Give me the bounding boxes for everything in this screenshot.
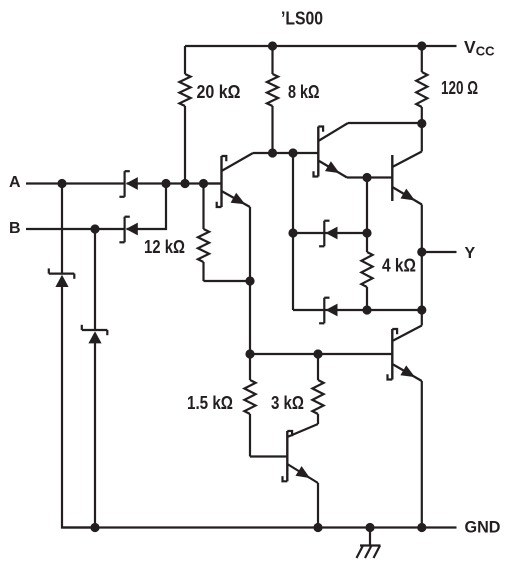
svg-text:A: A bbox=[9, 174, 21, 191]
transistor Q1 schottky input bbox=[208, 153, 254, 207]
wire Y stub bbox=[422, 251, 457, 253]
wire clamp B vertical bbox=[94, 229, 96, 330]
ground rail bbox=[62, 526, 457, 528]
node R7 top bbox=[313, 349, 322, 358]
resistor R2 8 k&#937; bbox=[267, 46, 278, 153]
transistor Q2 schottky phase splitter bbox=[314, 123, 349, 178]
node ground at clamp B bbox=[90, 523, 99, 532]
wire D1 to base node bbox=[127, 182, 222, 184]
node lower row at R5 bbox=[362, 305, 371, 314]
diode D2 input B schottky bbox=[119, 217, 137, 243]
wire R6 to Q6 base bbox=[250, 455, 287, 457]
svg-text:B: B bbox=[9, 220, 21, 237]
svg-text:8 kΩ: 8 kΩ bbox=[288, 82, 320, 102]
diode D6 schottky bbox=[319, 298, 337, 324]
svg-text:’LS00: ’LS00 bbox=[281, 8, 323, 29]
svg-text:1.5 kΩ: 1.5 kΩ bbox=[187, 393, 233, 413]
node VCC junction at R2 bbox=[268, 41, 277, 50]
svg-text:3 kΩ: 3 kΩ bbox=[271, 393, 304, 413]
resistor R4 12 k&#937; bbox=[198, 184, 209, 282]
node A clamp junction bbox=[57, 179, 66, 188]
transistor Q5 schottky output pulldown bbox=[388, 310, 422, 528]
wire Q2 emitter vertical to upper row bbox=[366, 178, 368, 234]
node R4 junction bbox=[199, 179, 208, 188]
resistor R1 20 k&#937; bbox=[179, 46, 190, 184]
wire upper diode row bbox=[293, 232, 367, 234]
transistor Q3 darlington output bbox=[392, 124, 422, 253]
ground symbol bbox=[357, 528, 381, 559]
node R6 top bbox=[245, 349, 254, 358]
diode D3 clamp A schottky bbox=[49, 268, 75, 287]
resistor R7 3 k&#937; bbox=[312, 354, 323, 424]
svg-text:4 kΩ: 4 kΩ bbox=[382, 256, 416, 276]
diode D5 schottky bbox=[319, 221, 337, 247]
wire Y output vertical bbox=[421, 252, 423, 310]
node R2 bottom junction bbox=[268, 148, 277, 157]
node R1 junction bbox=[180, 179, 189, 188]
wire clamp A vertical bbox=[61, 184, 63, 274]
wire Q1 collector line to Q2 base bbox=[253, 152, 318, 154]
node Y bbox=[417, 247, 426, 256]
resistor R5 4 k&#937; bbox=[361, 233, 372, 310]
wire input B bbox=[26, 228, 125, 230]
svg-text:20 kΩ: 20 kΩ bbox=[197, 82, 241, 102]
node B clamp junction bbox=[90, 224, 99, 233]
resistor R6 1.5 k&#937; bbox=[244, 354, 255, 457]
svg-text:Y: Y bbox=[465, 245, 476, 262]
node lower row right bbox=[417, 305, 426, 314]
svg-text:120 Ω: 120 Ω bbox=[441, 78, 478, 98]
node Q1 emitter / R4 junction bbox=[245, 276, 254, 285]
node upper row left bbox=[288, 228, 297, 237]
svg-text:GND: GND bbox=[465, 519, 501, 537]
wire mid vertical lower bbox=[292, 233, 294, 310]
transistor Q6 schottky squaring bbox=[283, 424, 319, 528]
wire input A bbox=[26, 182, 125, 184]
wire lower diode row bbox=[293, 309, 422, 311]
wire Q2 emitter to Q3 base bbox=[347, 176, 392, 178]
wire D4 to ground rail bbox=[94, 343, 96, 528]
node ground at symbol bbox=[365, 523, 374, 532]
node B-diode junction bbox=[161, 179, 170, 188]
wire R4 bottom to emitter node bbox=[204, 280, 251, 282]
wire D3 to ground rail bbox=[62, 287, 95, 528]
VCC rail bbox=[185, 45, 457, 47]
wire D2 to A-line bbox=[127, 184, 166, 230]
wire Q2 collector to 120 node bbox=[348, 122, 422, 124]
svg-text:12 kΩ: 12 kΩ bbox=[144, 237, 185, 257]
diode D4 clamp B schottky bbox=[82, 325, 108, 344]
node upper row right bbox=[362, 228, 371, 237]
node Q2 emitter junction bbox=[362, 173, 371, 182]
resistor R3 120 &#937; bbox=[416, 46, 427, 124]
node VCC junction at R3 bbox=[417, 41, 426, 50]
node 120 ohm bottom junction bbox=[417, 119, 426, 128]
wire phase splitter mid bbox=[250, 353, 392, 355]
node ground at Q6 bbox=[313, 523, 322, 532]
wire mid vertical bbox=[292, 153, 294, 233]
node mid vertical junction bbox=[288, 148, 297, 157]
svg-text:VCC: VCC bbox=[464, 37, 495, 59]
node ground at Q5 bbox=[417, 523, 426, 532]
wire Q1 emitter vertical bbox=[249, 207, 251, 354]
diode D1 input A schottky bbox=[119, 171, 137, 197]
